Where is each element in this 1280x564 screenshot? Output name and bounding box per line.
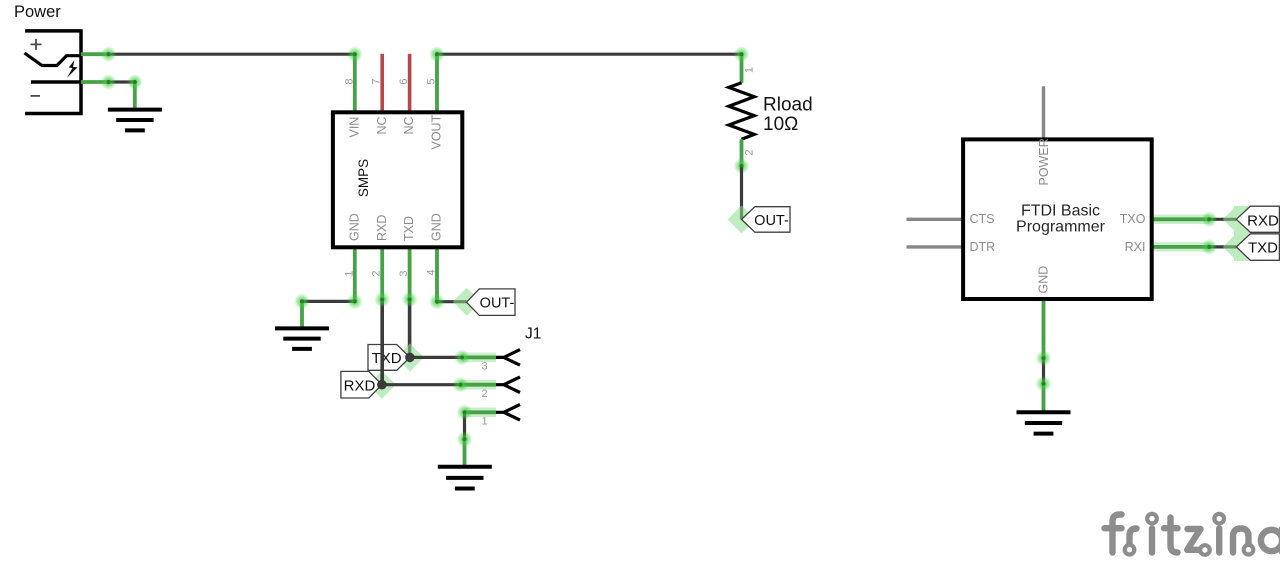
node VIN top (347, 46, 363, 62)
node gnd2 corner (294, 293, 310, 309)
node Rload bottom (734, 158, 750, 174)
svg-text:TXD: TXD (372, 350, 402, 367)
svg-text:8: 8 (343, 78, 355, 84)
wire pin2 down to RXD junction (380, 299, 384, 385)
svg-text:TXO: TXO (1120, 212, 1146, 226)
svg-text:RXD: RXD (375, 215, 389, 241)
J1 pin1 leg (465, 408, 497, 418)
pin DTR (907, 245, 964, 248)
svg-text:TXD: TXD (402, 216, 416, 241)
node pin1 bottom (347, 293, 363, 309)
node Rload top (734, 46, 750, 62)
svg-text:1: 1 (744, 67, 756, 73)
svg-text:10Ω: 10Ω (763, 114, 798, 135)
svg-text:6: 6 (398, 78, 410, 84)
net label TXD highlight (396, 343, 424, 371)
IC U2 FTDI pins gray CTS (907, 218, 964, 221)
ground GND2 (275, 328, 329, 349)
svg-text:POWER: POWER (1037, 138, 1051, 185)
node gnd3 joint (457, 431, 473, 447)
svg-text:RXD: RXD (1247, 212, 1279, 229)
net label OUT- highlight (453, 288, 481, 316)
svg-text:Rload: Rload (763, 95, 813, 116)
node power- junction (101, 74, 117, 90)
svg-text:Power: Power (14, 3, 61, 21)
pin leg VOUT (5) (435, 54, 439, 110)
svg-text:OUT-: OUT- (754, 213, 789, 229)
ground GND4 leg (1042, 384, 1046, 412)
resistor Rload leg 2 (740, 139, 744, 167)
net label OUT-2 highlight (728, 205, 756, 233)
pin NC 7 (380, 54, 384, 111)
pin leg GND (1042, 301, 1046, 358)
resistor Rload (729, 83, 754, 140)
junction TXD (405, 353, 415, 363)
pin leg GND (1) (353, 249, 357, 302)
node TXO leg end (1201, 211, 1217, 227)
svg-text:5: 5 (425, 78, 437, 84)
op SMPS pin leg VIN (8) (353, 54, 357, 110)
net label RXD2 (1236, 206, 1279, 232)
svg-text:GND: GND (430, 213, 444, 241)
svg-text:2: 2 (481, 388, 487, 400)
svg-text:2: 2 (744, 149, 756, 155)
node VOUT top (429, 46, 445, 62)
svg-text:OUT-: OUT- (480, 296, 515, 312)
net label RXD (341, 371, 382, 398)
svg-text:TXD: TXD (1248, 239, 1278, 256)
IC U2 FTDI body (963, 139, 1152, 299)
svg-text:RXD: RXD (344, 377, 376, 394)
wire power+ to VIN (109, 53, 355, 56)
J1 pin 3 (496, 350, 520, 366)
wire FTDI GND mid (1042, 358, 1045, 384)
J1 pin 1 (496, 405, 520, 421)
node RXI leg end (1201, 239, 1217, 255)
pin leg power- (81, 80, 109, 84)
pin leg RXI (1152, 242, 1209, 252)
svg-text:RXI: RXI (1125, 240, 1146, 254)
node gnd leg joint1 (1036, 350, 1052, 366)
svg-text:J1: J1 (525, 326, 541, 343)
svg-text:CTS: CTS (970, 212, 995, 226)
svg-text:VIN: VIN (348, 117, 362, 138)
pin leg TXO (1152, 215, 1209, 225)
wire TXO to RXD tag (1209, 218, 1236, 221)
pin leg TXD (3) (408, 249, 412, 300)
svg-text:NC: NC (375, 116, 389, 134)
ground GND1 leg (133, 82, 137, 109)
net label OUT- (467, 289, 516, 316)
J1 pin3 leg (462, 353, 496, 363)
svg-text:7: 7 (371, 78, 383, 84)
J1 pin 2 (496, 377, 520, 393)
ground GND3 leg (463, 439, 467, 466)
svg-text:NC: NC (402, 116, 416, 134)
node pin4 bottom (429, 294, 445, 310)
ground GND4 (1017, 412, 1071, 433)
svg-text:DTR: DTR (970, 240, 996, 254)
ground GND1 (108, 110, 162, 131)
IC U1 SMPS body (333, 112, 462, 247)
wire pin1 to ground (302, 300, 355, 303)
wire pin2 over tag (380, 344, 384, 385)
svg-text:3: 3 (398, 270, 410, 276)
net label RXD highlight (368, 371, 396, 399)
wire TXD junction to J1 pin3 (410, 356, 462, 359)
resistor Rload leg 1 (740, 54, 744, 82)
net label RXD2 highlight (1223, 206, 1250, 261)
svg-text:GND: GND (348, 213, 362, 241)
power jack J2 (25, 29, 82, 115)
fritzing logo (1105, 514, 1280, 555)
pin leg GND (4) (435, 249, 439, 302)
J1 pin2 leg (461, 380, 497, 390)
net label OUT-2 (742, 207, 791, 233)
ground GND3 (438, 467, 492, 489)
wire pin4 to OUT- tag (437, 300, 467, 303)
wire power- to ground (109, 80, 135, 83)
svg-text:1: 1 (343, 270, 355, 276)
svg-text:VOUT: VOUT (430, 114, 444, 149)
pin NC 6 (408, 54, 412, 111)
svg-text:3: 3 (481, 361, 487, 373)
wire RXD junction to J1 pin2 (382, 383, 461, 386)
wire VOUT to Rload (437, 53, 742, 56)
svg-text:4: 4 (425, 269, 437, 275)
pin POWER (1042, 86, 1045, 139)
svg-text:FTDI Basic: FTDI Basic (1021, 202, 1100, 219)
node J1 pin1 corner (457, 404, 473, 420)
connector J1 (481, 326, 541, 428)
junction RXD (377, 380, 387, 390)
wire J1 pin1 down (463, 412, 466, 439)
svg-text:1: 1 (481, 416, 487, 428)
node J1 pin2 start (453, 377, 469, 393)
svg-text:2: 2 (371, 270, 383, 276)
wire RXI to TXD tag (1209, 245, 1236, 248)
net label TXD2 (1236, 234, 1279, 260)
svg-text:SMPS: SMPS (356, 159, 371, 197)
svg-text:Programmer: Programmer (1016, 218, 1106, 235)
wire Rload to OUT- (740, 168, 743, 220)
node pin2 leg end (374, 292, 390, 308)
svg-text:GND: GND (1037, 266, 1051, 294)
node J1 pin3 start (454, 349, 470, 365)
wire pin3 down to TXD junction (408, 299, 412, 357)
node power+ junction (101, 46, 117, 62)
pin leg RXD (2) (380, 249, 384, 300)
node pin3 leg end (402, 292, 418, 308)
ground GND2 leg (300, 301, 304, 328)
node gnd leg joint2 (1036, 376, 1052, 392)
pin leg power+ (81, 52, 109, 56)
node gnd1 corner (127, 74, 143, 90)
net label TXD (368, 345, 410, 371)
